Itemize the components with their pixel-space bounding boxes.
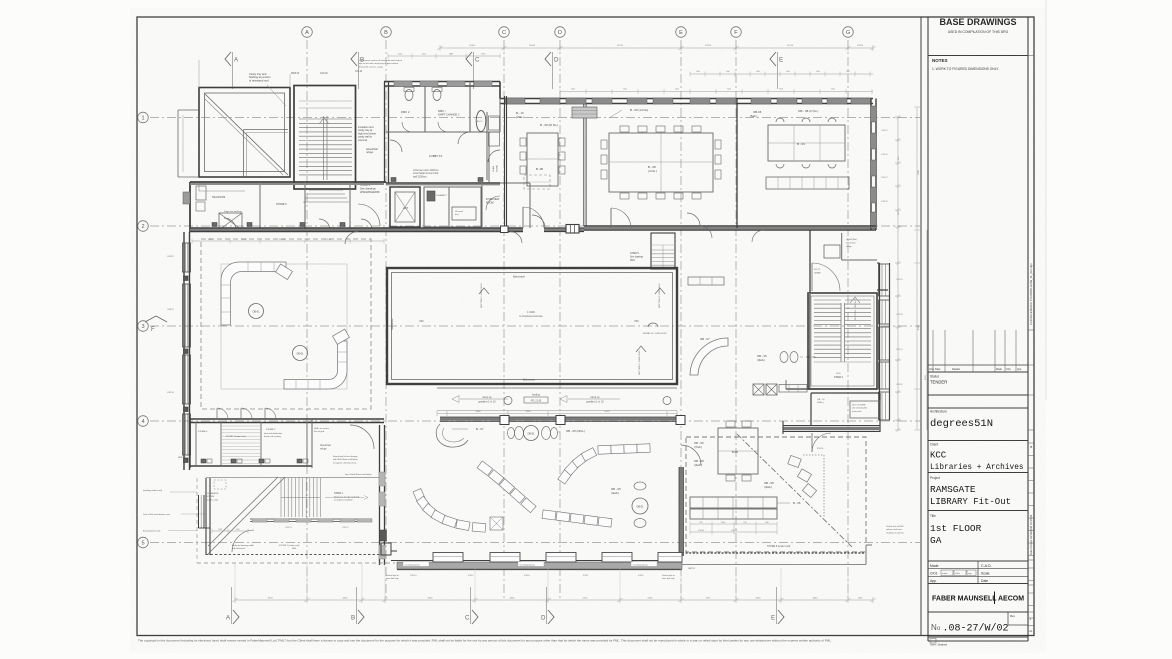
sheet border xyxy=(137,17,1034,636)
section marker E bottom xyxy=(778,610,784,624)
top dimension line 2 xyxy=(560,91,873,93)
grid line F vertical xyxy=(735,40,737,600)
table B-04 xyxy=(768,125,845,161)
grid line G vertical xyxy=(847,40,849,600)
interview room xyxy=(500,182,530,184)
column at grid D base xyxy=(566,225,579,234)
stair zone west window xyxy=(198,495,200,528)
title block right column xyxy=(1028,55,1034,57)
section marker C bottom xyxy=(472,610,478,624)
door arc store 9 xyxy=(681,445,701,465)
parapet wall left of rooflight xyxy=(178,109,199,111)
balcony wall columns xyxy=(500,416,509,425)
title block outer frame xyxy=(927,17,929,641)
carpet zone dashed outline xyxy=(201,239,371,409)
section marker A bottom xyxy=(233,610,239,624)
hall partition wall at grid C xyxy=(504,96,506,226)
grid line 3 horizontal xyxy=(150,325,920,327)
wall lobby east xyxy=(499,99,501,133)
section marker A top xyxy=(225,52,231,66)
stair 1 right wall windows xyxy=(379,472,385,486)
meeting rooms bottom wall xyxy=(584,225,876,227)
store partitions xyxy=(195,422,197,466)
sofa lower end module xyxy=(333,329,350,344)
title block BASE DRAWINGS header xyxy=(928,55,1028,57)
upper wing bottom wall xyxy=(190,227,523,229)
corridor wall step xyxy=(786,388,808,390)
store fixture boxes xyxy=(201,459,206,463)
roof outline above plan xyxy=(198,60,200,88)
tea room worktop xyxy=(199,190,245,192)
stair 3 enclosure xyxy=(294,86,356,190)
WC top wall windows xyxy=(394,81,412,87)
tea room X table xyxy=(219,213,242,230)
stair 1 door arc xyxy=(232,530,254,552)
grid bubble 3 left xyxy=(138,321,149,332)
stair 1 dark block xyxy=(380,530,387,541)
dotted partition store 9 xyxy=(823,455,825,517)
sofa group upper OB-01 xyxy=(221,262,286,325)
crossed floor boxes xyxy=(753,384,764,395)
table B-05 xyxy=(718,428,758,474)
ramp dimension line xyxy=(437,413,677,415)
bottom wall bay windows xyxy=(433,553,463,563)
left wall windows xyxy=(183,192,190,204)
doors in wing bottom wall xyxy=(345,232,358,245)
grid line E vertical xyxy=(680,40,682,600)
top small dimensions WC xyxy=(388,55,500,57)
grid line 4 horizontal xyxy=(150,420,920,422)
table B-08 meeting xyxy=(609,133,713,192)
sofa run A serpentine xyxy=(413,489,426,504)
store 9 south boundary east xyxy=(682,552,866,554)
title block revision table xyxy=(928,364,1028,366)
sofa OB-01 label lower xyxy=(293,346,308,361)
grid line B vertical xyxy=(385,40,387,600)
lift shaft xyxy=(390,187,420,227)
wall hatch bands xyxy=(190,229,523,231)
dimension line below tea wing xyxy=(192,240,384,242)
rooflight diagonal xyxy=(205,94,288,175)
mach duct room xyxy=(449,187,481,227)
grid bubble 5 left xyxy=(138,537,149,548)
tea room partitions xyxy=(259,182,261,230)
section marker B top xyxy=(351,52,357,66)
stair 1 right wall xyxy=(379,425,381,565)
grid bubble B top xyxy=(381,27,392,38)
label OB-01 circle mid xyxy=(524,426,539,441)
grid line 1 horizontal xyxy=(150,117,920,119)
ellipse group mid xyxy=(508,428,515,439)
title block made/scale/date rows xyxy=(928,568,1028,570)
title block FABER MAUNSELL AECOM logo xyxy=(928,611,1028,613)
corridor south wall heavy xyxy=(783,425,880,427)
stair 3 lower flight xyxy=(309,189,343,191)
stair 3 upper landing xyxy=(299,100,352,102)
store 3 hatch xyxy=(222,425,260,427)
sofa group lower OB-01 xyxy=(284,341,347,389)
stair 1 dim ticks xyxy=(212,530,248,532)
carpet inner rect xyxy=(221,264,347,389)
tea room door arcs xyxy=(224,218,236,230)
right wing corridor walls xyxy=(809,230,811,310)
left outer wall xyxy=(183,232,185,470)
stair 3 lower door arc xyxy=(358,204,380,226)
stair 1 glazed screen xyxy=(250,518,372,520)
bottom glazed wall xyxy=(397,560,682,562)
sofa run C diagonal xyxy=(558,469,572,485)
grid bubble 1 left xyxy=(138,112,149,123)
top-right corner wall xyxy=(870,99,872,231)
wing fixture boxes xyxy=(212,223,217,227)
grid line D vertical xyxy=(559,40,561,600)
grid bubble D top xyxy=(555,27,566,38)
scan grain overlay xyxy=(130,8,1046,653)
section marker F left xyxy=(145,316,167,322)
ramp grab rail posts xyxy=(504,397,512,405)
acoustic panel at partition head xyxy=(572,107,597,118)
grid line 5 horizontal xyxy=(150,542,920,544)
wall join lobby to hall xyxy=(488,132,490,183)
right wing lower walls xyxy=(877,289,888,291)
WC door arcs xyxy=(402,122,412,132)
grid bubble 2 left xyxy=(138,221,149,232)
sofa upper end module xyxy=(276,264,293,279)
tea room fittings xyxy=(196,186,206,200)
WC shower oval xyxy=(476,111,486,132)
door leaf near grid C xyxy=(522,207,524,228)
stair 1 treads xyxy=(280,478,282,517)
section marker C top xyxy=(466,52,472,66)
refuge fixture box xyxy=(824,245,840,258)
WC block outer walls xyxy=(384,81,500,83)
right dimension lines xyxy=(897,117,899,430)
grid bubble F top xyxy=(731,27,742,38)
top wall windows xyxy=(505,98,525,104)
stair lobby door arc xyxy=(811,263,813,291)
sofa run B lower straight xyxy=(542,510,556,520)
sofa run C straight xyxy=(598,445,611,454)
duct store room xyxy=(810,393,812,425)
shelf under B-04 xyxy=(766,177,849,189)
table B-10 xyxy=(527,133,558,186)
WC toilets xyxy=(405,90,413,101)
top dimension line 3 xyxy=(690,73,873,75)
small shelf right of void xyxy=(688,277,724,285)
title block drawing number 08-27/W/02 xyxy=(928,636,1028,638)
grid line C vertical xyxy=(503,40,505,600)
shelving unit B-06 xyxy=(690,497,777,508)
ellipses OB-05 lower xyxy=(634,482,646,490)
stair 2 enclosure xyxy=(808,293,877,389)
grid line 2 horizontal xyxy=(150,225,920,227)
label OB-01 circle lower xyxy=(632,498,648,514)
bottom dimension line xyxy=(235,599,873,601)
bottom dim extension lines xyxy=(234,563,236,600)
meeting room divider wall xyxy=(736,99,738,228)
sofa run B serpentine upper xyxy=(477,461,492,476)
scan artifact line right xyxy=(1045,0,1047,400)
rooflight void room top-left xyxy=(199,88,290,178)
right wall lower with windows xyxy=(879,263,881,420)
tea room wing walls xyxy=(190,181,386,183)
balcony edge wall south of ramp xyxy=(440,417,684,421)
right wall windows upper xyxy=(871,106,877,122)
room B-09 west partition xyxy=(583,104,585,226)
top dimension line xyxy=(440,47,873,49)
store 9 diagonal wall xyxy=(737,434,852,547)
corridor door arcs mid xyxy=(700,226,712,238)
secondary glazing label chips xyxy=(403,562,429,567)
grid line A vertical xyxy=(306,40,308,600)
store rooms walls xyxy=(190,418,384,420)
left wall RWP boxes xyxy=(184,276,189,281)
rooflight hip lines xyxy=(244,129,289,131)
stair 1 dashed bottom xyxy=(206,554,381,556)
store door arcs xyxy=(217,408,228,419)
section marker E top xyxy=(770,52,776,66)
grid bubble E top xyxy=(676,27,687,38)
dashed desk in B-10 room xyxy=(524,175,550,189)
landing label xyxy=(524,397,548,403)
cleaner room xyxy=(424,187,449,227)
store 9 dashed outline xyxy=(686,437,866,552)
wheelchair refuge room xyxy=(841,233,843,260)
stair 3 treads xyxy=(299,118,352,120)
door arc store corridor xyxy=(350,425,374,449)
stair 1 landing edge xyxy=(206,477,381,479)
sofa OB-01 label upper xyxy=(249,304,264,319)
column at grid C base xyxy=(501,226,509,233)
bottom wall west end post xyxy=(381,543,391,555)
section marker D bottom xyxy=(548,610,554,624)
B-07 curved desk xyxy=(436,424,468,447)
rack beside crossed boxes xyxy=(779,385,807,393)
grid bubble 4 left xyxy=(138,416,149,427)
stair 1 direction arrow xyxy=(325,497,364,499)
central void opening xyxy=(387,268,677,384)
OB-07 curved desk xyxy=(690,338,728,375)
grid bubble A top xyxy=(302,27,313,38)
store 9 internal dimensions xyxy=(690,523,777,525)
WC partition wall xyxy=(424,86,426,132)
bottom wall of WC block xyxy=(386,182,500,184)
grid bubble G top xyxy=(843,27,854,38)
chair store xyxy=(486,112,488,180)
door arc into B-09 xyxy=(610,208,612,228)
store 9 west wall xyxy=(679,467,683,556)
stair 1 left wall xyxy=(205,478,207,555)
ramp strip below void xyxy=(437,387,677,389)
title block architecture degrees51N xyxy=(928,407,1028,409)
stair 1 diagonals xyxy=(208,477,285,554)
interview room wall xyxy=(529,183,531,228)
section marker D top xyxy=(545,52,551,66)
main hall top wall xyxy=(500,98,873,100)
section marker B bottom xyxy=(358,610,364,624)
door arc into store 9 corridor xyxy=(811,433,813,452)
stair 2 treads xyxy=(814,299,841,301)
stair 5 treads xyxy=(651,233,675,269)
lobby doors xyxy=(390,140,402,152)
armchairs along diagonal xyxy=(788,455,801,467)
duct store box xyxy=(850,401,880,418)
grid bubble C top xyxy=(499,27,510,38)
sofa run A end box xyxy=(490,517,503,530)
drawing area right border xyxy=(920,17,922,636)
